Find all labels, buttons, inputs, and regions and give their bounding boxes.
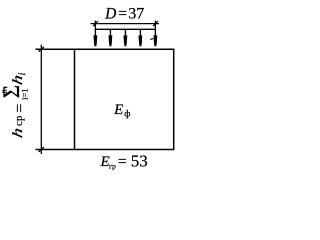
right edge of block [173, 49, 175, 150]
svg-text:i=1: i=1 [20, 88, 30, 99]
inner vertical edge [74, 49, 76, 150]
load arrow 1 [94, 29, 98, 46]
h dimension tick top [39, 47, 44, 52]
bottom line [36, 149, 175, 151]
svg-text:h: h [10, 126, 26, 139]
dimension line D [91, 23, 160, 25]
load arrow 3 [124, 29, 128, 46]
svg-text:=: = [12, 104, 29, 113]
label E_gr = 53 (soil modulus) [100, 152, 148, 171]
svg-text:i: i [17, 72, 28, 75]
h dimension tick bottom [39, 147, 44, 152]
svg-text:гр: гр [109, 161, 116, 170]
stray tick near arrow 5 [150, 39, 153, 40]
extension line left [94, 21, 96, 30]
dimension line h (left) [40, 45, 42, 154]
svg-text:D: D [104, 6, 116, 23]
svg-text:=: = [118, 153, 127, 170]
extension line right [154, 21, 156, 30]
load line [95, 28, 156, 30]
svg-text:37: 37 [128, 6, 144, 23]
svg-text:53: 53 [131, 152, 148, 171]
label D = 37 [104, 6, 144, 23]
dimension tick right [153, 21, 158, 26]
svg-text:ф: ф [124, 109, 130, 120]
load arrow 4 [139, 29, 143, 46]
dimension tick left [93, 21, 98, 26]
svg-text:n: n [0, 89, 8, 93]
label E_f (block modulus) [113, 102, 130, 119]
svg-text:ср: ср [13, 115, 25, 126]
formula h_cp = sum(i=1..n) h_i (rotated 90 CCW) [0, 72, 30, 139]
load arrow 2 [109, 29, 113, 46]
top surface line [36, 48, 175, 50]
svg-text:E: E [113, 102, 123, 118]
svg-text:=: = [118, 6, 127, 23]
load arrow 5 [154, 29, 158, 46]
